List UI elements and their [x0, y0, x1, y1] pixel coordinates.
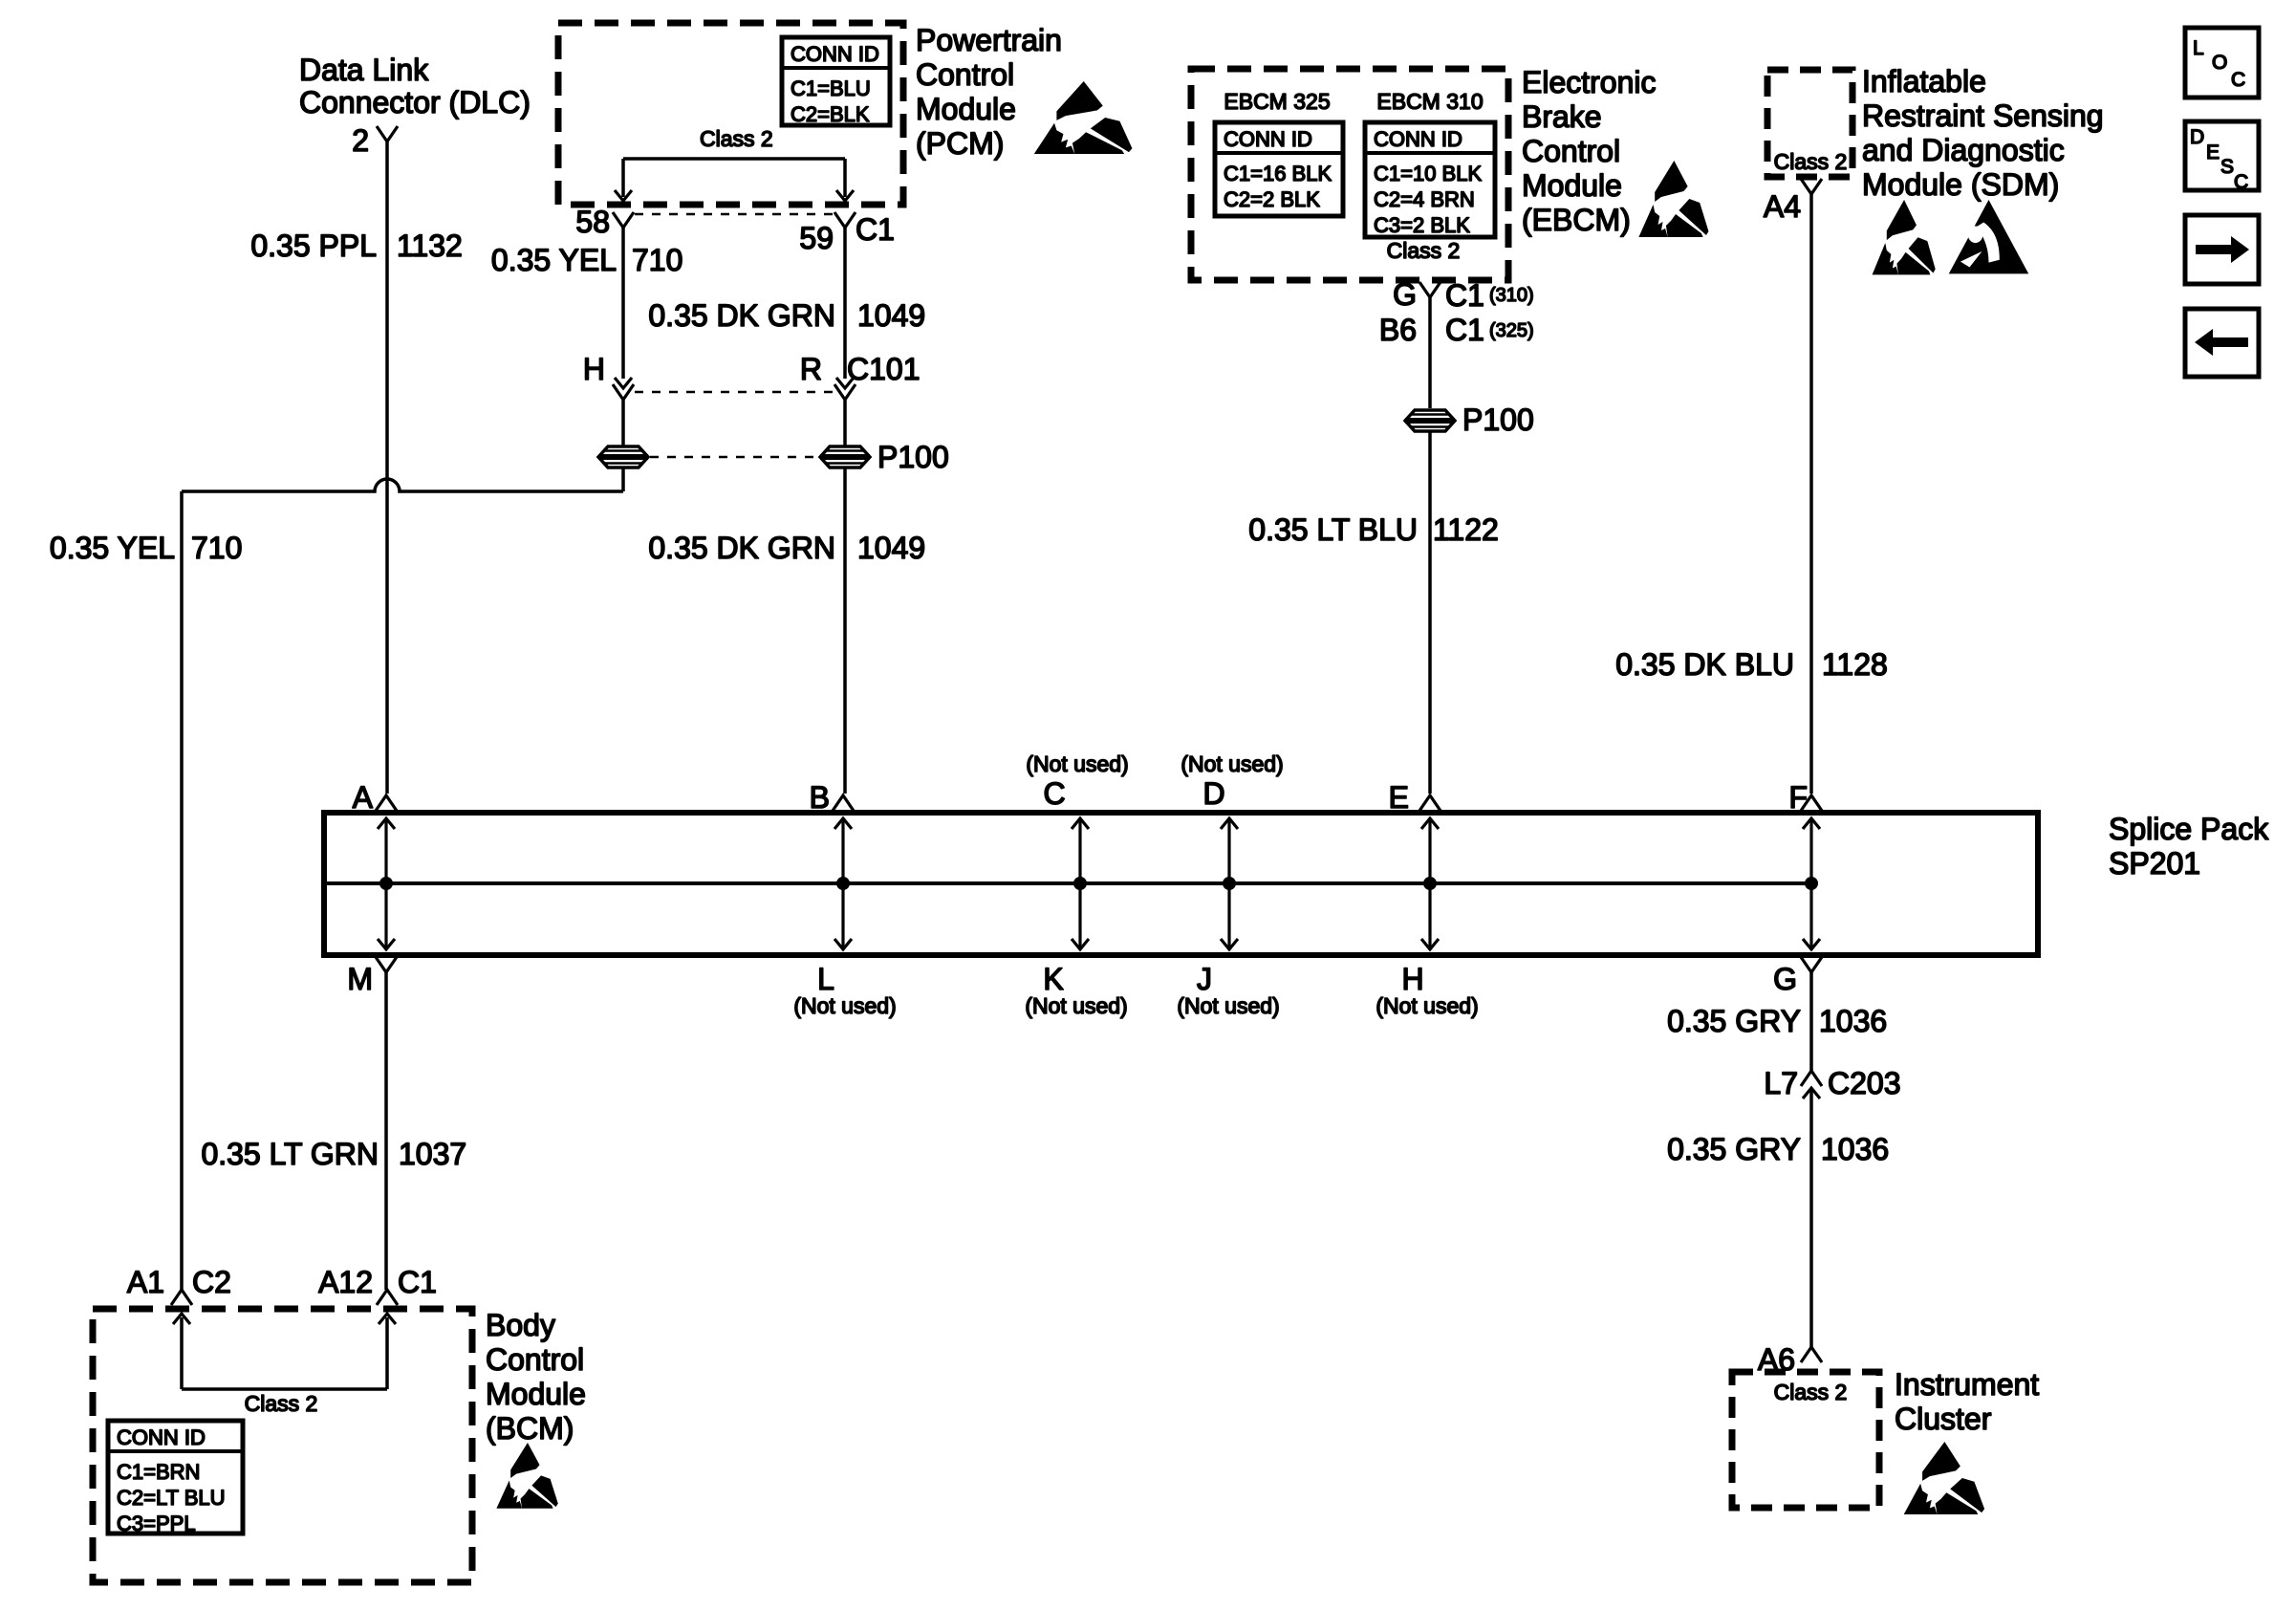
svg-text:R: R: [800, 352, 822, 386]
svg-text:D: D: [1202, 776, 1224, 811]
svg-text:L: L: [817, 962, 834, 996]
svg-text:L7: L7: [1764, 1066, 1798, 1100]
svg-text:Connector (DLC): Connector (DLC): [299, 85, 531, 120]
svg-text:C1=10 BLK: C1=10 BLK: [1374, 162, 1482, 185]
splice pin B fork: [833, 795, 854, 811]
svg-text:1128: 1128: [1822, 647, 1888, 682]
svg-text:Instrument: Instrument: [1895, 1367, 2039, 1402]
splice internal arrow line E: [1428, 820, 1431, 947]
pin 58 terminal fork: [613, 212, 634, 228]
svg-text:C3=PPL: C3=PPL: [117, 1512, 196, 1535]
svg-text:710: 710: [191, 531, 242, 565]
Body Control Module (BCM) dashed box: [93, 1309, 472, 1582]
svg-text:(325): (325): [1489, 320, 1534, 341]
svg-text:0.35 LT BLU: 0.35 LT BLU: [1248, 512, 1418, 547]
svg-text:CONN ID: CONN ID: [1224, 127, 1312, 151]
svg-text:0.35 GRY: 0.35 GRY: [1667, 1132, 1801, 1166]
svg-text:K: K: [1043, 962, 1063, 996]
svg-text:C2=BLK: C2=BLK: [791, 102, 870, 126]
wire jog horizontal with hop over DLC wire: [182, 479, 623, 491]
splice junction dot D: [1223, 877, 1236, 890]
svg-text:(EBCM): (EBCM): [1522, 203, 1631, 237]
svg-text:CONN ID: CONN ID: [791, 42, 879, 66]
pin 59 terminal fork: [834, 212, 856, 228]
Powertrain Control Module (PCM) dashed box: [558, 23, 903, 205]
BCM CONN ID table: [108, 1421, 243, 1534]
svg-text:Body: Body: [486, 1308, 555, 1342]
svg-text:59: 59: [799, 221, 834, 255]
SDM pin A4 terminal fork: [1801, 179, 1822, 194]
svg-text:B6: B6: [1379, 313, 1417, 347]
svg-text:Brake: Brake: [1522, 99, 1602, 134]
connector C203 fork L7: [1801, 1071, 1822, 1086]
pin H terminal fork below C101: [613, 384, 634, 400]
ESD symbol at PCM: [1034, 81, 1133, 154]
svg-text:(Not used): (Not used): [1026, 751, 1128, 776]
svg-text:1132: 1132: [397, 228, 463, 263]
svg-text:(Not used): (Not used): [1025, 993, 1127, 1018]
arrow into BCM pin A1: [173, 1314, 190, 1324]
pin 2 terminal fork at DLC: [377, 126, 398, 141]
Instrument Cluster dashed box: [1732, 1372, 1879, 1508]
splice pin M fork: [376, 957, 397, 972]
svg-text:C3=2 BLK: C3=2 BLK: [1374, 213, 1470, 237]
svg-text:EBCM 310: EBCM 310: [1376, 89, 1483, 114]
svg-text:B: B: [810, 780, 830, 815]
splice arrow down D: [1221, 939, 1238, 949]
LOC navigation box: [2185, 28, 2259, 98]
wire 0.35 PPL 1132 from DLC pin 2 down to splice A: [385, 141, 389, 794]
wire H below C101 to P100: [621, 400, 625, 446]
wire from EBCM pin G down to P100: [1428, 297, 1432, 408]
splice arrow up C: [1072, 818, 1089, 829]
BCM internal Class 2 bus horizontal wire: [182, 1387, 387, 1391]
splice arrow down C: [1072, 939, 1089, 949]
splice arrow down B: [834, 939, 852, 949]
svg-text:0.35 DK GRN: 0.35 DK GRN: [648, 298, 835, 333]
svg-text:J: J: [1197, 962, 1212, 996]
splice pin A fork: [376, 795, 397, 811]
splice junction dot C: [1073, 877, 1087, 890]
svg-text:C1=BRN: C1=BRN: [117, 1460, 200, 1484]
svg-text:D: D: [2190, 126, 2204, 148]
BCM internal wire right rise: [385, 1317, 389, 1389]
splice junction dot F: [1805, 877, 1818, 890]
right arrow navigation box: [2185, 215, 2259, 284]
arrow wire into C101 pin R: [836, 378, 854, 388]
svg-text:1049: 1049: [857, 531, 925, 565]
svg-text:1122: 1122: [1433, 512, 1499, 547]
svg-text:E: E: [1389, 780, 1409, 815]
svg-text:2: 2: [352, 123, 369, 158]
svg-text:0.35 YEL: 0.35 YEL: [50, 531, 175, 565]
PCM internal wire right drop: [843, 159, 847, 197]
svg-text:E: E: [2206, 141, 2220, 163]
splice internal arrow line C: [1078, 820, 1081, 947]
svg-text:0.35 DK BLU: 0.35 DK BLU: [1615, 647, 1794, 682]
svg-text:Powertrain: Powertrain: [916, 23, 1062, 57]
svg-text:C101: C101: [847, 352, 921, 386]
svg-text:C: C: [1043, 776, 1065, 811]
svg-text:0.35 GRY: 0.35 GRY: [1667, 1004, 1801, 1038]
svg-text:C1=16 BLK: C1=16 BLK: [1224, 162, 1332, 185]
svg-text:1036: 1036: [1821, 1132, 1889, 1166]
svg-text:A: A: [353, 780, 374, 815]
svg-text:and Diagnostic: and Diagnostic: [1862, 133, 2065, 167]
svg-text:CONN ID: CONN ID: [1374, 127, 1462, 151]
svg-text:Class 2: Class 2: [1774, 149, 1848, 174]
wire 0.35 YEL 710 far left down to BCM A1: [180, 491, 184, 1290]
BCM internal wire left rise: [180, 1317, 184, 1389]
splice arrow up D: [1221, 818, 1238, 829]
svg-text:Module (SDM): Module (SDM): [1862, 167, 2059, 202]
svg-text:C1: C1: [856, 212, 895, 247]
arrow into PCM pin 59: [836, 190, 854, 201]
connector C101 dashed face line: [635, 391, 834, 394]
svg-text:C: C: [2231, 69, 2245, 91]
svg-text:1049: 1049: [857, 298, 925, 333]
DESC navigation box: [2185, 121, 2259, 190]
svg-text:S: S: [2220, 156, 2234, 178]
arrow into PCM pin 58: [615, 190, 632, 201]
svg-text:Control: Control: [916, 57, 1014, 92]
splice pin G fork: [1801, 957, 1822, 972]
ESD symbol at BCM: [496, 1443, 557, 1509]
splice internal arrow line B: [841, 820, 844, 947]
svg-text:EBCM 325: EBCM 325: [1224, 89, 1330, 114]
grommet P100 EBCM: [1405, 410, 1455, 431]
P100 dashed link line: [650, 456, 818, 459]
svg-text:Data Link: Data Link: [299, 53, 429, 87]
pin A12 terminal fork BCM: [377, 1290, 398, 1305]
splice arrow down E: [1421, 939, 1439, 949]
splice internal arrow line F: [1809, 820, 1812, 947]
svg-text:710: 710: [632, 243, 682, 277]
connector C1 dashed face line: [635, 213, 834, 216]
svg-text:(310): (310): [1489, 285, 1534, 306]
splice junction dot A: [379, 877, 393, 890]
svg-text:Splice Pack: Splice Pack: [2109, 812, 2269, 846]
svg-text:0.35 LT GRN: 0.35 LT GRN: [201, 1137, 379, 1171]
svg-text:L: L: [2193, 37, 2204, 59]
connector C203 arrow: [1803, 1088, 1820, 1099]
pin A1 terminal fork BCM: [171, 1290, 192, 1305]
ESD symbol at Instrument Cluster: [1904, 1442, 1984, 1514]
svg-text:F: F: [1788, 780, 1808, 815]
svg-text:C2=2 BLK: C2=2 BLK: [1224, 187, 1320, 211]
svg-text:A4: A4: [1764, 189, 1801, 224]
wire 0.35 YEL 710 from pin 58 down to C101 H: [621, 228, 625, 379]
svg-text:H: H: [1401, 962, 1423, 996]
svg-text:0.35 DK GRN: 0.35 DK GRN: [648, 531, 835, 565]
svg-text:G: G: [1393, 277, 1417, 312]
svg-text:C2=LT BLU: C2=LT BLU: [117, 1486, 226, 1510]
pin A6 terminal fork: [1801, 1347, 1822, 1362]
svg-text:H: H: [583, 352, 605, 386]
wire 0.35 DK BLU 1128 from SDM A4 down to splice F: [1809, 194, 1813, 794]
arrow into BCM pin A12: [379, 1314, 396, 1324]
svg-text:Cluster: Cluster: [1895, 1402, 1992, 1436]
wire R below C101 to P100: [843, 400, 847, 446]
splice arrow up B: [834, 818, 852, 829]
svg-text:Inflatable: Inflatable: [1862, 64, 1986, 98]
svg-text:C2=4 BRN: C2=4 BRN: [1374, 187, 1475, 211]
wire 0.35 GRY 1036 from C203 down to cluster A6: [1809, 1088, 1813, 1347]
svg-text:O: O: [2212, 52, 2227, 74]
splice pack SP201 box: [324, 813, 2038, 955]
splice internal arrow line A: [384, 820, 387, 947]
ESD symbol at SDM: [1873, 200, 1936, 274]
wire 0.35 DK GRN 1049 from pin 59 down to C101 R: [843, 228, 847, 379]
splice pack internal bus line: [327, 881, 1811, 885]
svg-text:C2: C2: [192, 1265, 231, 1299]
svg-text:Module: Module: [486, 1377, 586, 1411]
PCM internal wire left drop: [621, 159, 625, 197]
splice internal arrow line D: [1227, 820, 1230, 947]
splice pin F fork: [1801, 795, 1822, 811]
svg-text:SP201: SP201: [2109, 846, 2200, 881]
svg-text:A1: A1: [127, 1265, 164, 1299]
PCM CONN ID table: [782, 37, 890, 125]
Inflatable Restraint SDM dashed box: [1767, 70, 1852, 177]
svg-text:0.35 PPL: 0.35 PPL: [250, 228, 377, 263]
svg-text:Module: Module: [916, 92, 1016, 126]
splice junction dot B: [836, 877, 850, 890]
wire 0.35 GRY 1036 from splice G down to C203: [1809, 972, 1813, 1071]
arrow wire into C101 pin H: [615, 378, 632, 388]
ESD symbol at EBCM: [1638, 161, 1708, 237]
svg-text:58: 58: [575, 205, 610, 239]
wire below left P100 to jog: [621, 468, 625, 491]
svg-text:(Not used): (Not used): [1177, 993, 1279, 1018]
svg-text:0.35 YEL: 0.35 YEL: [491, 243, 617, 277]
EBCM 325 CONN ID table: [1215, 122, 1343, 216]
svg-text:Class 2: Class 2: [1387, 238, 1461, 263]
svg-text:(BCM): (BCM): [486, 1411, 574, 1446]
wire 0.35 LT BLU 1122 from P100 down to splice E: [1428, 432, 1432, 794]
svg-text:C1: C1: [398, 1265, 437, 1299]
svg-text:Class 2: Class 2: [1774, 1380, 1848, 1404]
svg-text:C203: C203: [1828, 1066, 1901, 1100]
svg-text:Restraint Sensing: Restraint Sensing: [1862, 98, 2104, 133]
pin R terminal fork below C101: [834, 384, 856, 400]
svg-text:C1: C1: [1445, 313, 1484, 347]
svg-text:M: M: [347, 962, 373, 996]
wire 0.35 DK GRN 1049 from P100 down to splice B: [843, 468, 847, 794]
svg-text:Module: Module: [1522, 168, 1622, 203]
svg-text:1036: 1036: [1819, 1004, 1887, 1038]
svg-text:Class 2: Class 2: [700, 126, 773, 151]
EBCM pin G terminal fork: [1419, 282, 1440, 297]
svg-text:G: G: [1773, 962, 1797, 996]
EBCM 310 CONN ID table: [1365, 122, 1495, 237]
splice arrow up E: [1421, 818, 1439, 829]
splice junction dot E: [1423, 877, 1437, 890]
svg-text:Class 2: Class 2: [245, 1391, 318, 1416]
svg-text:CONN ID: CONN ID: [117, 1425, 206, 1449]
svg-text:Control: Control: [486, 1342, 584, 1377]
splice pin E fork: [1419, 795, 1440, 811]
left arrow navigation box: [2185, 309, 2259, 377]
svg-text:(Not used): (Not used): [1180, 751, 1283, 776]
svg-text:(Not used): (Not used): [1375, 993, 1478, 1018]
svg-text:Control: Control: [1522, 134, 1620, 168]
svg-text:P100: P100: [1462, 402, 1534, 437]
PCM internal Class 2 bus horizontal wire: [623, 157, 845, 161]
svg-text:Electronic: Electronic: [1522, 65, 1657, 99]
svg-text:P100: P100: [877, 440, 949, 474]
svg-text:C1=BLU: C1=BLU: [791, 76, 871, 100]
svg-text:C1: C1: [1445, 278, 1484, 313]
svg-text:1037: 1037: [399, 1137, 466, 1171]
grommet P100 right: [820, 446, 870, 468]
svg-text:(Not used): (Not used): [793, 993, 896, 1018]
svg-text:C: C: [2234, 171, 2248, 193]
splice arrow up A: [378, 818, 395, 829]
splice arrow up F: [1803, 818, 1820, 829]
svg-text:(PCM): (PCM): [916, 126, 1004, 161]
grommet P100 left: [598, 446, 648, 468]
svg-text:A12: A12: [318, 1265, 373, 1299]
Electronic Brake Control Module (EBCM) dashed box: [1191, 69, 1508, 280]
wire 0.35 LT GRN 1037 from splice M down to BCM A12: [384, 972, 388, 1290]
SIR symbol at SDM: [1949, 200, 2029, 273]
splice arrow down A: [378, 939, 395, 949]
splice arrow down F: [1803, 939, 1820, 949]
